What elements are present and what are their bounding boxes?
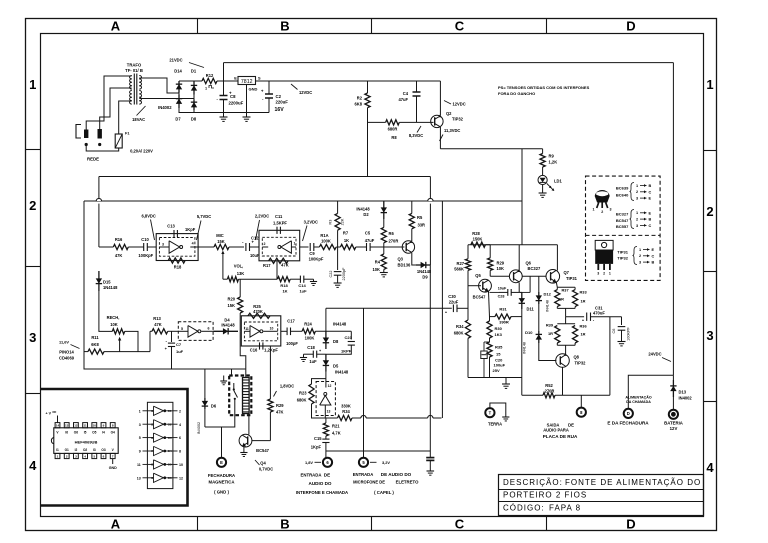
svg-text:Q6: Q6 xyxy=(526,261,532,266)
svg-text:BC547: BC547 xyxy=(473,295,486,300)
svg-text:680R: 680R xyxy=(388,127,398,132)
label 12VDC xyxy=(291,84,298,90)
svg-text:4: 4 xyxy=(192,242,194,246)
IC HEF4069UB DIP14 body xyxy=(54,428,118,454)
svg-text:100KpF: 100KpF xyxy=(309,257,324,262)
wire Q6 to Q7 base xyxy=(522,275,546,277)
svg-text:IN4148: IN4148 xyxy=(335,369,349,374)
svg-text:D: D xyxy=(627,411,630,416)
wire D15 to RECH xyxy=(99,291,112,331)
svg-text:47uF: 47uF xyxy=(398,97,408,102)
wire bridge bottom rail / ground rail xyxy=(179,110,269,113)
svg-text:RECH,: RECH, xyxy=(107,315,120,320)
svg-text:R31: R31 xyxy=(499,307,507,312)
wire Q6 emitter xyxy=(518,245,520,271)
svg-text:22uF: 22uF xyxy=(449,300,459,305)
svg-text:PS= TENSOES OBTIDAS COM OS INT: PS= TENSOES OBTIDAS COM OS INTERFONES xyxy=(498,85,590,90)
svg-text:Q2: Q2 xyxy=(446,111,452,116)
capacitor C8 2200uF xyxy=(223,81,225,96)
svg-text:680K: 680K xyxy=(297,398,307,403)
svg-text:12: 12 xyxy=(179,476,183,480)
svg-text:GND: GND xyxy=(109,466,117,470)
transistor Q6 BC327 xyxy=(509,270,522,283)
svg-text:270R: 270R xyxy=(545,388,555,393)
svg-text:9: 9 xyxy=(139,450,141,454)
svg-text:2: 2 xyxy=(639,254,641,258)
resistor R52 270R xyxy=(543,393,555,398)
svg-text:FECHADURA: FECHADURA xyxy=(208,473,235,478)
wire rail down x522 xyxy=(521,201,523,245)
resistor R30b 1K3 emitter xyxy=(489,292,490,318)
wire bridge top rail xyxy=(179,80,202,82)
inverter gate 13-12 xyxy=(143,477,154,479)
wire C28 left to Q5 emitter node xyxy=(490,291,500,293)
transistor Q7 TIP31 xyxy=(546,270,560,284)
svg-text:R21: R21 xyxy=(332,424,340,429)
svg-text:R35: R35 xyxy=(495,345,503,350)
wire audio out drop xyxy=(609,317,611,396)
svg-text:C7: C7 xyxy=(176,342,182,347)
terminal E DA FECHADURA xyxy=(624,409,633,418)
svg-text:O4: O4 xyxy=(111,431,115,435)
wire U1A out xyxy=(198,246,214,248)
ground output rail xyxy=(505,378,507,385)
svg-text:IN4002: IN4002 xyxy=(197,422,201,434)
svg-text:AUDIO PARA: AUDIO PARA xyxy=(543,428,569,433)
ground C8 xyxy=(223,113,225,118)
svg-text:1: 1 xyxy=(636,184,638,188)
resistor R5 33R xyxy=(411,201,413,213)
svg-text:3: 3 xyxy=(639,261,641,265)
svg-text:3: 3 xyxy=(706,328,713,343)
pot wiper arrow xyxy=(222,253,224,263)
svg-text:12VDC: 12VDC xyxy=(299,90,312,95)
resistor R34b 680K xyxy=(465,320,470,338)
inverter U1D box with feedback xyxy=(241,316,280,346)
svg-text:12: 12 xyxy=(74,424,78,428)
VDD wire xyxy=(57,416,59,423)
resistor R23 680K feedback xyxy=(312,379,326,384)
svg-text:C: C xyxy=(649,190,652,194)
svg-text:REDE: REDE xyxy=(87,157,99,162)
resistor R9 1.2K xyxy=(540,154,545,168)
svg-text:13: 13 xyxy=(327,410,331,414)
svg-text:3,2V: 3,2V xyxy=(382,460,390,465)
svg-text:D7: D7 xyxy=(175,117,181,122)
regulator U2 7812 xyxy=(238,77,256,85)
wire R8 to Q2 base xyxy=(399,121,433,123)
svg-text:BC547: BC547 xyxy=(616,218,629,223)
resistor R24 100K xyxy=(302,329,315,334)
svg-text:R1A: R1A xyxy=(320,233,328,238)
svg-text:ALIMENTAÇÃO: ALIMENTAÇÃO xyxy=(625,394,651,399)
svg-text:21VDC: 21VDC xyxy=(169,58,182,63)
svg-text:18VAC: 18VAC xyxy=(132,117,145,122)
capacitor C16 1.2KpF xyxy=(259,342,261,349)
svg-text:Q8: Q8 xyxy=(574,355,580,360)
svg-text:Q7: Q7 xyxy=(564,270,570,275)
wire 12V output xyxy=(256,80,441,82)
svg-text:10uF: 10uF xyxy=(498,287,507,291)
wire relay bottom to Q4 xyxy=(245,414,247,434)
wire 11.6V rail xyxy=(84,200,522,202)
capacitor C20 100uF 25V xyxy=(483,342,485,351)
svg-text:10K: 10K xyxy=(110,322,118,327)
svg-text:R4: R4 xyxy=(375,260,381,265)
svg-text:B: B xyxy=(652,261,655,265)
svg-text:AUDIO DO: AUDIO DO xyxy=(309,481,332,486)
capacitor C29 xyxy=(426,457,434,459)
svg-text:R7: R7 xyxy=(343,230,349,235)
svg-text:1K: 1K xyxy=(344,238,349,243)
svg-text:TIP32: TIP32 xyxy=(452,117,464,122)
svg-text:O2: O2 xyxy=(83,448,87,452)
svg-text:E DA FECHADURA: E DA FECHADURA xyxy=(607,421,649,426)
svg-text:HEF4069UB: HEF4069UB xyxy=(75,439,98,444)
svg-text:5: 5 xyxy=(181,327,183,331)
inverter gate 9-8 xyxy=(143,450,154,452)
relay coil xyxy=(243,378,250,414)
resistor R25 470K feedback xyxy=(248,313,270,318)
svg-text:4: 4 xyxy=(706,460,714,475)
svg-text:1: 1 xyxy=(609,272,611,276)
svg-text:TIP32: TIP32 xyxy=(575,361,587,366)
svg-text:13K: 13K xyxy=(237,271,245,276)
svg-text:O5: O5 xyxy=(92,431,96,435)
svg-text:C: C xyxy=(455,19,465,34)
transistor Q5 BC547 xyxy=(479,279,492,292)
svg-text:2: 2 xyxy=(636,190,638,194)
pot MIC 15K xyxy=(214,244,229,249)
wire output rail xyxy=(442,244,557,246)
svg-text:INTERFONE E CHAMADA: INTERFONE E CHAMADA xyxy=(296,490,348,495)
wire VOL row xyxy=(239,278,278,280)
svg-text:O1: O1 xyxy=(168,409,172,413)
svg-text:R3: R3 xyxy=(329,220,333,225)
svg-text:R27: R27 xyxy=(456,261,464,266)
svg-text:6,8VDC: 6,8VDC xyxy=(142,214,156,219)
svg-text:100pF: 100pF xyxy=(286,341,298,346)
svg-text:D11: D11 xyxy=(527,307,535,312)
svg-text:GND: GND xyxy=(249,87,258,92)
svg-text:R23: R23 xyxy=(299,391,307,396)
svg-text:1: 1 xyxy=(639,248,641,252)
svg-text:C15: C15 xyxy=(314,436,322,441)
svg-text:100K: 100K xyxy=(305,335,315,340)
inverter U1A box xyxy=(156,234,198,261)
svg-text:14: 14 xyxy=(56,424,60,428)
capacitor C7 1uF xyxy=(171,331,173,342)
svg-text:6: 6 xyxy=(179,436,181,440)
svg-text:22K: 22K xyxy=(341,218,345,225)
svg-text:3: 3 xyxy=(139,423,141,427)
wire to fechadura terminal xyxy=(628,375,673,408)
svg-text:R28: R28 xyxy=(472,231,480,236)
svg-text:R20: R20 xyxy=(227,297,235,302)
svg-text:D14: D14 xyxy=(174,69,182,74)
svg-text:C13: C13 xyxy=(167,224,175,229)
svg-text:1: 1 xyxy=(294,242,296,246)
svg-text:O4: O4 xyxy=(168,449,172,453)
label 12VDC at Q2 xyxy=(444,101,451,105)
svg-text:C8: C8 xyxy=(230,94,236,99)
svg-text:1R: 1R xyxy=(548,331,553,336)
svg-text:C23: C23 xyxy=(345,335,353,340)
wire R12 to C8 node xyxy=(217,80,238,82)
svg-text:D8: D8 xyxy=(333,339,339,344)
svg-text:3: 3 xyxy=(162,243,164,247)
svg-text:( CAPEL ): ( CAPEL ) xyxy=(374,490,394,495)
svg-text:R24: R24 xyxy=(304,321,312,326)
svg-text:( GND ): ( GND ) xyxy=(214,490,229,495)
svg-text:IN4148: IN4148 xyxy=(523,342,527,354)
svg-text:1,2K: 1,2K xyxy=(549,160,558,165)
ground LD1 xyxy=(542,185,544,193)
svg-text:A: A xyxy=(111,517,121,532)
svg-text:O3: O3 xyxy=(101,448,105,452)
svg-text:TRAFO: TRAFO xyxy=(127,63,142,68)
resistor R1A 100K xyxy=(319,244,336,249)
capacitor C6 100KPF xyxy=(621,317,623,325)
svg-text:1K: 1K xyxy=(282,289,287,294)
capacitor C31 470uF xyxy=(586,313,588,321)
resistor R16 47K xyxy=(99,246,113,248)
svg-text:33R: 33R xyxy=(418,223,426,228)
terminal BATERIA 12V xyxy=(669,410,678,419)
svg-text:13: 13 xyxy=(137,476,141,480)
svg-text:R13: R13 xyxy=(153,316,161,321)
svg-text:1R: 1R xyxy=(581,299,586,304)
svg-text:C10: C10 xyxy=(141,237,149,242)
resistor R29 47K xyxy=(269,346,271,399)
title block xyxy=(499,475,704,516)
terminal fechadura magnetica xyxy=(221,427,223,458)
svg-text:270R: 270R xyxy=(389,239,399,244)
svg-text:T: T xyxy=(489,410,492,415)
svg-text:R18: R18 xyxy=(280,283,288,288)
wire Q2 collector to preamp rail xyxy=(440,148,542,150)
svg-text:100K: 100K xyxy=(321,239,331,244)
resistor R6 270R xyxy=(383,219,385,227)
svg-text:C: C xyxy=(649,224,652,228)
svg-text:2: 2 xyxy=(601,210,603,214)
svg-text:1: 1 xyxy=(205,87,207,91)
svg-text:IN4148: IN4148 xyxy=(221,323,235,328)
resistor pair R37 R33 xyxy=(557,286,575,288)
svg-text:1uF: 1uF xyxy=(309,359,317,364)
wire secondary to bridge xyxy=(139,78,179,93)
terminal saida audio xyxy=(580,395,582,407)
svg-text:D1: D1 xyxy=(191,69,197,74)
wire R11 row xyxy=(104,351,150,353)
svg-text:MAGNETICA: MAGNETICA xyxy=(208,480,234,485)
svg-text:CD4069: CD4069 xyxy=(59,356,75,361)
diode D4 IN4148 xyxy=(213,330,238,332)
7812 ground pin xyxy=(246,85,248,113)
svg-text:ENTRADA: ENTRADA xyxy=(300,473,321,478)
svg-text:8,3VDC: 8,3VDC xyxy=(409,133,423,138)
resistor R17 47K feedback xyxy=(269,258,288,263)
wire Q5 base xyxy=(468,285,481,287)
svg-text:470uF: 470uF xyxy=(593,311,605,316)
svg-text:680K: 680K xyxy=(454,330,464,335)
svg-text:I5: I5 xyxy=(84,431,87,435)
svg-text:12: 12 xyxy=(328,384,332,388)
svg-text:C16: C16 xyxy=(250,348,258,353)
svg-text:S: S xyxy=(258,76,261,81)
capacitor C2 220uF 16V xyxy=(268,81,270,94)
resistor R8 680R xyxy=(386,120,400,125)
terminal 6 entrada audio interfone xyxy=(323,458,332,467)
svg-text:O1: O1 xyxy=(65,448,69,452)
resistor R2 6K8 xyxy=(367,81,369,93)
wire mic audio line xyxy=(326,307,452,309)
pot VOL 13K xyxy=(227,277,238,282)
svg-text:C6: C6 xyxy=(612,329,616,334)
resistor R27 566K xyxy=(467,245,469,259)
svg-text:O6: O6 xyxy=(74,431,78,435)
wire output node xyxy=(565,308,567,316)
svg-text:D9: D9 xyxy=(422,275,428,280)
svg-text:BC327: BC327 xyxy=(616,211,629,216)
resistor R18 feedback xyxy=(168,258,185,263)
svg-text:2: 2 xyxy=(603,272,605,276)
svg-text:D12: D12 xyxy=(544,292,552,297)
info box transistor pinouts xyxy=(586,176,661,280)
resistor R3 22K vertical xyxy=(337,230,339,247)
diode D15 1N4148 xyxy=(98,271,100,291)
LED LD1 xyxy=(542,167,544,176)
svg-text:R6: R6 xyxy=(389,231,395,236)
wire terminal5 column xyxy=(363,308,365,457)
svg-text:12V: 12V xyxy=(670,426,678,431)
ground C14 xyxy=(304,278,314,280)
svg-text:C28: C28 xyxy=(498,295,505,299)
svg-text:D2: D2 xyxy=(363,212,369,217)
svg-text:1: 1 xyxy=(139,409,141,413)
svg-text:IN4002: IN4002 xyxy=(679,396,693,401)
svg-text:6K8: 6K8 xyxy=(354,102,362,107)
svg-text:F1: F1 xyxy=(125,132,129,136)
svg-text:R11: R11 xyxy=(91,335,99,340)
inverter U1C box xyxy=(178,322,213,341)
svg-text:2: 2 xyxy=(264,242,266,246)
svg-text:1: 1 xyxy=(29,77,36,92)
svg-text:3,2VDC: 3,2VDC xyxy=(304,219,318,224)
resistor R21 4.7K xyxy=(325,418,327,423)
svg-text:A: A xyxy=(111,19,121,34)
svg-text:R29: R29 xyxy=(497,261,505,266)
pot RECH 10K xyxy=(112,329,124,334)
capacitor C9 100KpF xyxy=(309,243,311,251)
svg-text:IN4148: IN4148 xyxy=(333,322,347,327)
svg-text:C2: C2 xyxy=(276,94,282,99)
svg-text:15: 15 xyxy=(496,352,501,357)
svg-text:BC639: BC639 xyxy=(616,185,629,190)
svg-text:+: + xyxy=(261,89,264,94)
svg-text:O2: O2 xyxy=(168,422,172,426)
capacitor C30 22uF xyxy=(452,305,454,313)
svg-text:0,20A/ 220V: 0,20A/ 220V xyxy=(130,149,153,154)
resistor R29b 10K xyxy=(489,245,491,258)
wire Q3 collector xyxy=(412,253,416,265)
svg-text:1R: 1R xyxy=(559,297,564,302)
svg-text:R30: R30 xyxy=(495,326,503,331)
svg-text:O6: O6 xyxy=(168,476,172,480)
svg-text:Q4: Q4 xyxy=(260,461,266,466)
svg-text:I6: I6 xyxy=(65,431,68,435)
transistor Q4 BC547 xyxy=(239,434,252,447)
svg-text:FORA DO GANCHO: FORA DO GANCHO xyxy=(498,91,535,96)
svg-text:DE AUDIO DO: DE AUDIO DO xyxy=(381,472,412,477)
transistor Q8 TIP32 xyxy=(556,354,570,368)
svg-text:C9: C9 xyxy=(309,251,315,256)
svg-text:Q5: Q5 xyxy=(475,273,481,278)
svg-text:330K: 330K xyxy=(341,404,351,409)
wire to U1E xyxy=(325,372,327,379)
svg-text:IN4148: IN4148 xyxy=(546,300,550,312)
svg-text:PORTEIRO 2 FIOS: PORTEIRO 2 FIOS xyxy=(503,491,587,500)
capacitor C14 1uF xyxy=(299,276,301,283)
svg-text:FONTE DE ALIMENTAÇÃO DO: FONTE DE ALIMENTAÇÃO DO xyxy=(565,478,701,487)
diode D12 IN4148 xyxy=(538,276,540,292)
svg-text:1N4148: 1N4148 xyxy=(103,285,118,290)
svg-text:TF- 01/ B: TF- 01/ B xyxy=(125,68,143,73)
resistor pair R39 R36 xyxy=(557,323,575,325)
svg-text:1R: 1R xyxy=(581,332,586,337)
svg-text:4: 4 xyxy=(29,458,37,473)
diode D10 IN4148 xyxy=(538,304,540,331)
svg-text:Q3: Q3 xyxy=(398,257,404,262)
diode D13 IN4002 xyxy=(672,380,674,397)
svg-text:TIP31: TIP31 xyxy=(617,249,628,254)
svg-text:C: C xyxy=(455,517,465,532)
svg-text:C22: C22 xyxy=(329,271,333,278)
svg-text:E: E xyxy=(234,76,237,81)
svg-text:C30: C30 xyxy=(448,294,456,299)
wire base node column xyxy=(467,286,469,320)
svg-text:D10: D10 xyxy=(525,330,533,335)
svg-text:ENTRADA: ENTRADA xyxy=(353,472,373,477)
svg-text:D8: D8 xyxy=(191,117,197,122)
svg-text:I1: I1 xyxy=(56,448,59,452)
svg-text:+ V: + V xyxy=(46,412,52,416)
transistor Q2 TIP32 xyxy=(431,115,443,127)
svg-text:TIP32: TIP32 xyxy=(617,256,628,261)
svg-text:IN4148: IN4148 xyxy=(356,207,370,212)
resistor R13 47K xyxy=(152,329,168,334)
svg-text:5,7VDC: 5,7VDC xyxy=(197,214,211,219)
svg-text:1,5KPF: 1,5KPF xyxy=(273,221,287,226)
capacitor C17 100pF xyxy=(286,328,288,336)
svg-text:R33: R33 xyxy=(580,290,588,295)
wire Q6 collector xyxy=(518,283,520,293)
svg-text:11: 11 xyxy=(245,327,249,331)
svg-text:DE: DE xyxy=(324,473,330,478)
svg-text:DESCRIÇÃO:: DESCRIÇÃO: xyxy=(503,478,563,487)
svg-text:TERRA: TERRA xyxy=(488,422,502,427)
ground inside relay xyxy=(223,376,225,382)
wire switch to fechadura xyxy=(205,400,235,428)
wire R24 to node xyxy=(315,330,351,332)
svg-text:ELETRETO: ELETRETO xyxy=(396,480,419,485)
diode D11 xyxy=(521,292,523,309)
wire R2 node to R8 xyxy=(368,121,386,123)
svg-text:R8: R8 xyxy=(391,135,397,140)
svg-text:1: 1 xyxy=(593,208,595,212)
diode D9 1N4148 xyxy=(416,264,430,266)
wire C31 out xyxy=(591,316,622,318)
